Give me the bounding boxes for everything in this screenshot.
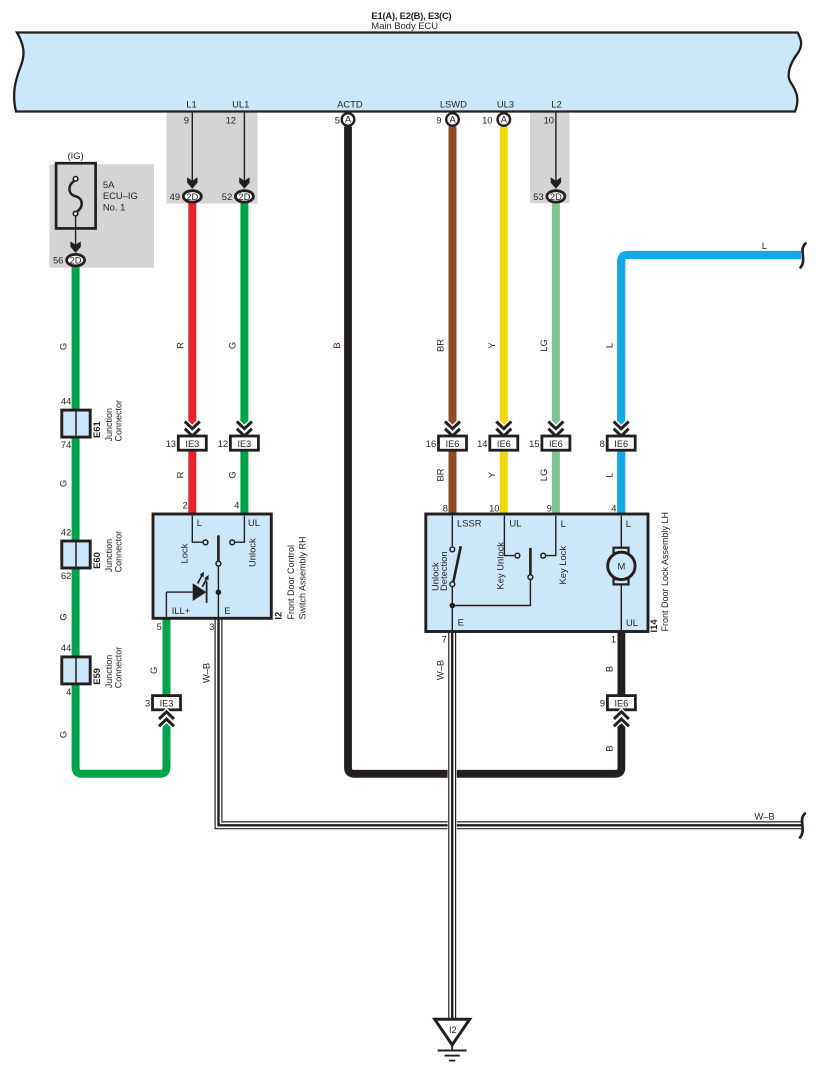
svg-text:(IG): (IG) [68, 150, 84, 161]
svg-text:E59: E59 [91, 668, 102, 685]
svg-text:I2: I2 [273, 612, 284, 620]
svg-text:74: 74 [61, 439, 71, 450]
front door control switch assembly RH (I2) [153, 500, 308, 632]
connector oval 2D (53) [533, 191, 565, 202]
connector oval 2D (56) [53, 254, 85, 265]
svg-text:9: 9 [600, 698, 605, 709]
wire B (ACTD to I14 UL) [348, 127, 621, 774]
connector IE6 (14) [477, 422, 518, 451]
connector IE6 (15) [529, 422, 570, 451]
connector IE6 (9) bottom [600, 696, 636, 727]
wire Y (UL3) [500, 127, 508, 517]
svg-text:Switch Assembly RH: Switch Assembly RH [298, 536, 308, 619]
svg-text:E: E [458, 616, 464, 627]
svg-text:IE6: IE6 [446, 439, 460, 449]
svg-text:Y: Y [486, 471, 497, 478]
svg-text:No. 1: No. 1 [103, 201, 125, 212]
svg-text:UL: UL [626, 617, 638, 628]
svg-text:42: 42 [61, 526, 71, 537]
svg-text:Unlock: Unlock [246, 538, 257, 567]
svg-text:53: 53 [533, 191, 543, 202]
svg-text:2D: 2D [238, 191, 250, 202]
svg-text:Connector: Connector [113, 647, 123, 689]
svg-text:2D: 2D [186, 191, 198, 202]
svg-text:5: 5 [157, 621, 162, 632]
break symbol W-B wire [800, 814, 805, 838]
svg-text:44: 44 [61, 396, 71, 407]
svg-text:UL3: UL3 [497, 99, 514, 110]
svg-text:G: G [227, 342, 238, 349]
svg-text:A: A [449, 114, 456, 125]
svg-text:3: 3 [209, 621, 214, 632]
wire BR (LSWD) [449, 127, 457, 517]
svg-text:L2: L2 [551, 99, 561, 110]
svg-text:2D: 2D [550, 191, 562, 202]
svg-text:4: 4 [234, 500, 239, 511]
fuse 5A ECU-IG No.1 [56, 150, 138, 229]
gray panel fuse area [49, 164, 154, 268]
svg-text:LG: LG [538, 469, 549, 482]
svg-text:W–B: W–B [434, 660, 445, 680]
svg-text:G: G [58, 343, 69, 350]
svg-text:9: 9 [184, 114, 189, 125]
connector IE6 (16) [426, 422, 467, 451]
svg-text:LSSR: LSSR [457, 518, 482, 529]
wire LG (L2) [552, 203, 560, 516]
svg-text:Junction: Junction [104, 539, 114, 573]
svg-text:L: L [603, 343, 614, 348]
svg-text:E: E [224, 605, 230, 616]
Main Body ECU block (torn-edge band) [14, 33, 801, 112]
svg-text:IE6: IE6 [614, 439, 628, 449]
key switch common [452, 580, 530, 606]
svg-text:G: G [227, 471, 238, 478]
connector A circle (UL3 10) [498, 113, 511, 126]
wire R (L1) [188, 203, 196, 516]
svg-text:IE6: IE6 [549, 439, 563, 449]
svg-text:52: 52 [222, 191, 232, 202]
motor M [620, 516, 622, 548]
svg-text:13: 13 [166, 438, 176, 449]
svg-text:A: A [345, 114, 352, 125]
wire L (blue) [621, 255, 801, 516]
key unlock contact [504, 516, 514, 556]
svg-text:L: L [603, 472, 614, 477]
unlock detection switch [451, 516, 453, 546]
svg-text:B: B [604, 745, 615, 751]
connector oval 2D (52) [222, 191, 254, 202]
switch blade [217, 535, 220, 561]
svg-text:UL1: UL1 [232, 99, 249, 110]
svg-text:UL: UL [509, 518, 521, 529]
svg-text:W–B: W–B [201, 663, 212, 683]
unlock contact [235, 516, 244, 543]
svg-text:12: 12 [218, 438, 228, 449]
svg-text:L1: L1 [186, 99, 196, 110]
svg-text:L: L [762, 240, 767, 251]
svg-text:44: 44 [61, 642, 71, 653]
wire G left (fuse to I2 ILL+) [76, 267, 167, 774]
svg-text:I14: I14 [648, 619, 659, 633]
svg-text:IE6: IE6 [497, 439, 511, 449]
svg-text:Key Unlock: Key Unlock [494, 542, 505, 590]
front door lock assembly LH (I14) [426, 503, 670, 645]
svg-text:4: 4 [66, 686, 71, 697]
svg-text:G: G [148, 667, 159, 674]
junction connector E59 [61, 642, 124, 697]
svg-text:10: 10 [544, 114, 554, 125]
svg-text:Junction: Junction [104, 408, 114, 442]
svg-text:1: 1 [611, 633, 616, 644]
arrow into 2D (L2 53) [551, 112, 561, 189]
gray panel L2 [530, 112, 570, 203]
svg-text:5: 5 [335, 114, 340, 125]
svg-text:3: 3 [145, 698, 150, 709]
gray panel L1/UL1 [167, 112, 258, 203]
svg-text:L: L [197, 517, 202, 528]
svg-text:49: 49 [170, 191, 180, 202]
svg-text:R: R [174, 342, 185, 349]
svg-text:62: 62 [61, 570, 71, 581]
connector oval 2D (49) [170, 191, 202, 202]
svg-text:4: 4 [611, 503, 616, 514]
arrow into 2D (56) [70, 216, 80, 253]
svg-text:Connector: Connector [113, 400, 123, 442]
svg-text:G: G [58, 613, 69, 620]
LED arrows [198, 576, 202, 584]
svg-text:Connector: Connector [113, 531, 123, 573]
svg-text:ACTD: ACTD [337, 99, 363, 110]
svg-text:Key Lock: Key Lock [557, 546, 568, 585]
svg-text:ECU–IG: ECU–IG [103, 190, 138, 201]
junction dot I14 [450, 603, 456, 609]
LED ILL+ [193, 583, 207, 601]
svg-text:Front Door Control: Front Door Control [286, 545, 296, 620]
svg-text:ILL+: ILL+ [172, 605, 191, 616]
junction connector E60 [61, 526, 124, 581]
svg-text:I2: I2 [449, 1025, 457, 1035]
svg-text:W–B: W–B [754, 810, 774, 821]
svg-text:A: A [501, 114, 508, 125]
svg-text:R: R [174, 471, 185, 478]
svg-text:G: G [58, 731, 69, 738]
connector A circle (LSWD 9) [446, 113, 459, 126]
svg-text:IE3: IE3 [185, 439, 199, 449]
svg-text:UL: UL [248, 517, 260, 528]
svg-text:10: 10 [482, 114, 492, 125]
svg-text:2: 2 [182, 500, 187, 511]
wire W-B from I2 E to right edge [219, 618, 802, 825]
svg-text:16: 16 [426, 438, 436, 449]
junction connector E61 [61, 396, 124, 451]
svg-text:IE3: IE3 [160, 699, 174, 709]
svg-text:B: B [604, 666, 615, 672]
svg-text:LG: LG [538, 339, 549, 352]
svg-text:56: 56 [53, 255, 63, 266]
svg-text:Y: Y [486, 342, 497, 349]
svg-text:12: 12 [226, 114, 236, 125]
svg-text:14: 14 [477, 438, 487, 449]
svg-text:LSWD: LSWD [440, 99, 467, 110]
connector IE3 (13) [166, 422, 207, 451]
break symbol blue wire [801, 244, 806, 268]
svg-text:IE6: IE6 [615, 699, 629, 709]
connector IE6 (8) [600, 422, 636, 451]
junction dot [216, 589, 222, 595]
svg-text:9: 9 [436, 114, 441, 125]
svg-text:9: 9 [547, 503, 552, 514]
svg-text:Front Door Lock Assembly LH: Front Door Lock Assembly LH [660, 512, 670, 632]
connector IE3 (12) [218, 422, 259, 451]
svg-text:IE3: IE3 [238, 439, 252, 449]
svg-text:5A: 5A [103, 179, 115, 190]
svg-text:G: G [58, 480, 69, 487]
svg-text:Junction: Junction [104, 655, 114, 689]
arrow into 2D (L1 49) [187, 112, 197, 189]
svg-text:15: 15 [529, 438, 539, 449]
svg-text:B: B [331, 342, 342, 348]
svg-text:L: L [561, 518, 566, 529]
svg-text:E60: E60 [91, 552, 102, 569]
svg-text:BR: BR [435, 468, 446, 481]
ground I2 [435, 1019, 470, 1060]
wire G (UL1) [240, 203, 248, 516]
arrow into 2D (UL1 52) [239, 112, 249, 189]
svg-text:E61: E61 [91, 421, 102, 438]
connector IE3 (3) bottom [145, 696, 181, 727]
wire to E [217, 566, 219, 617]
svg-text:8: 8 [443, 503, 448, 514]
svg-text:8: 8 [600, 438, 605, 449]
connector A circle (ACTD 5) [342, 113, 355, 126]
wire W-B from I14 E to ground [448, 632, 457, 1019]
key lock contact [546, 516, 555, 556]
lock contact [192, 516, 202, 543]
svg-text:BR: BR [435, 339, 446, 352]
svg-text:Lock: Lock [179, 543, 190, 563]
svg-text:Detection: Detection [438, 551, 449, 591]
svg-text:M: M [617, 561, 625, 572]
svg-text:7: 7 [442, 633, 447, 644]
svg-text:2D: 2D [70, 255, 82, 266]
svg-text:10: 10 [489, 503, 499, 514]
svg-text:Main Body ECU: Main Body ECU [371, 20, 438, 31]
svg-text:L: L [626, 518, 631, 529]
